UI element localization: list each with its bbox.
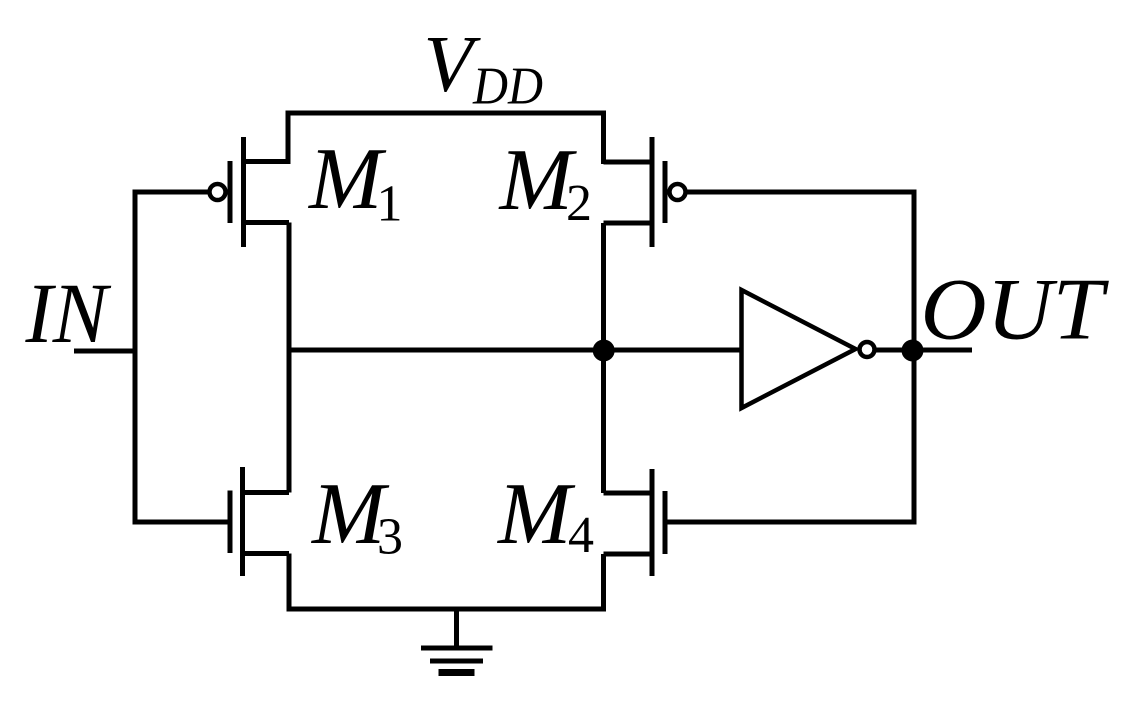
transistor M3 source stub — [243, 551, 290, 556]
transistor M3 channel bar — [240, 467, 245, 576]
transistor M1 drain stub — [244, 220, 290, 225]
transistor M3 gate bar — [228, 491, 233, 554]
transistor M2 channel bar — [650, 137, 655, 247]
svg-text:1: 1 — [377, 176, 403, 233]
op-amp U1 inverter bubble — [860, 342, 875, 357]
svg-text:IN: IN — [25, 265, 112, 361]
ground bar 1 — [421, 646, 493, 651]
ground stem — [454, 609, 459, 648]
wire middle net — [289, 348, 742, 353]
transistor M4 drain stub — [604, 491, 653, 496]
op-amp U1 inverter triangle — [742, 290, 856, 408]
svg-text:DD: DD — [472, 58, 543, 116]
transistor M3 drain stub — [243, 490, 290, 495]
svg-text:4: 4 — [568, 507, 594, 564]
wire ground rail — [289, 554, 604, 610]
ground bar 2 — [430, 659, 483, 664]
svg-text:2: 2 — [566, 175, 592, 232]
wire M1 drain to M3 drain column — [287, 223, 292, 493]
svg-text:OUT: OUT — [921, 262, 1110, 359]
svg-text:M: M — [496, 466, 576, 563]
wire VDD rail — [288, 113, 604, 164]
svg-text:3: 3 — [377, 509, 403, 566]
node junction dot middle — [593, 340, 615, 362]
wire IN lead — [74, 349, 137, 354]
wire M2 drain to M4 drain column — [601, 223, 606, 493]
transistor M2 gate bubble — [670, 184, 686, 200]
node IN bus wire — [135, 192, 228, 522]
transistor M1 channel bar — [241, 137, 246, 247]
transistor M2 source stub — [604, 160, 653, 165]
transistor M1 source stub — [244, 159, 289, 164]
transistor M2 drain stub — [604, 221, 653, 226]
svg-text:M: M — [307, 131, 387, 228]
transistor M4 channel bar — [650, 469, 655, 576]
wire feedback net — [668, 192, 915, 522]
transistor M2 gate bar — [663, 161, 668, 223]
node junction dot OUT — [902, 340, 924, 362]
transistor M1 gate bar — [228, 161, 233, 223]
transistor M4 source stub — [604, 552, 653, 557]
transistor M4 gate bar — [663, 491, 668, 554]
wire OUT lead — [875, 348, 972, 353]
ground bar 3 — [439, 669, 475, 676]
transistor M1 gate bubble — [210, 184, 226, 200]
